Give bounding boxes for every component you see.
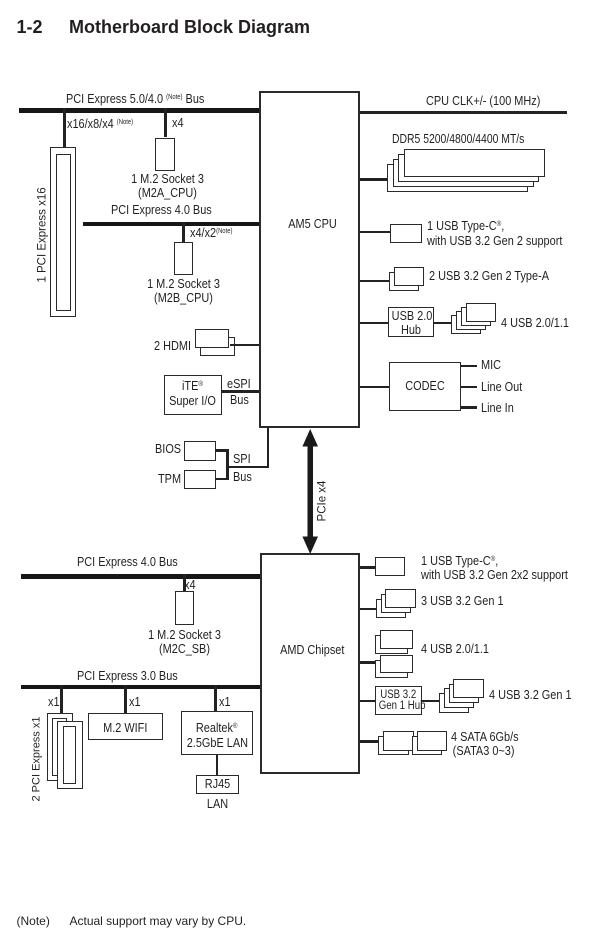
port: USB Type-C box (CPU)	[390, 224, 422, 244]
wire: TPM to SPI joint	[215, 478, 229, 481]
label USB 3.2 Gen 1 Hub	[379, 690, 418, 711]
wire: PCI Express 5.0/4.0 bus line	[19, 108, 259, 113]
connector: PCIe x1 slot back outer	[47, 713, 73, 781]
connector: PCIe x1 slot front inner	[63, 726, 77, 784]
port: USB Type-A front box	[394, 267, 424, 287]
port: USB 3.2 Gen1 stack box 3 (back)	[376, 599, 407, 619]
connector: DDR5 DIMM slot 2	[398, 154, 539, 182]
label AM5 CPU	[270, 217, 355, 230]
port: SATA left back box	[378, 736, 409, 755]
wire: drop to PCIe x1 slots	[60, 685, 63, 713]
port: USB 3.2 Gen1 stack box 1 (front)	[385, 589, 416, 609]
label Line In	[481, 401, 514, 414]
wire: CPU to USB 2.0 hub	[360, 322, 388, 325]
M.2 socket M2B box	[174, 242, 193, 275]
wire: SPI joint vertical	[226, 449, 229, 480]
port: USB 2.0 stack box 4 (back)	[451, 315, 482, 335]
port: USB 2.0 pair1 back box	[375, 635, 408, 654]
label 4 USB 3.2 Gen 1	[489, 688, 572, 701]
label 4 USB 2.0/1.1	[501, 316, 569, 329]
label 3 USB 3.2 Gen 1	[421, 594, 504, 607]
chip: TPM box	[184, 470, 216, 489]
wire: CPU to DDR5	[360, 178, 388, 181]
label 1 USB Type-C with USB 3.2 Gen 2x2 support	[421, 552, 568, 582]
connector: PCI Express x16 slot outer	[50, 147, 76, 317]
wire: hub to 4 USB 3.2 Gen 1 ports	[422, 700, 440, 703]
wire: HDMI to CPU	[230, 344, 259, 347]
label LAN	[199, 797, 235, 810]
label x4	[184, 578, 196, 591]
port: USB 2.0 pair2 back box	[375, 660, 408, 679]
port: USB Type-A back box	[389, 272, 420, 291]
label x16/x8/x4 (Note)	[67, 116, 133, 130]
label x1 (wifi)	[129, 695, 141, 708]
label x4/x2 (Note)	[190, 225, 232, 239]
label SPI	[233, 452, 251, 465]
port: USB 3.2 Gen1 stack box 2	[381, 594, 412, 614]
title section number 1-2	[17, 18, 43, 36]
chip: CODEC box	[389, 362, 461, 411]
wire: chipset to 3 USB 3.2 Gen 1	[360, 608, 377, 611]
wire: CPU to USB Type-C	[360, 231, 390, 234]
label 1 USB Type-C with USB 3.2 Gen 2 support	[427, 217, 562, 247]
label USB 2.0 Hub	[391, 309, 430, 336]
wire: CPU to CODEC	[360, 386, 389, 389]
port: USB 2.0 stack box 1 (front)	[466, 303, 497, 323]
label Line Out	[481, 380, 522, 393]
wire: drop to M2C socket	[183, 574, 186, 591]
chip: Realtek 2.5GbE LAN box	[181, 711, 253, 755]
title Motherboard Block Diagram	[69, 18, 310, 36]
wire: chipset to USB 3.2 Gen 1 hub	[360, 700, 376, 703]
port: USB 2.0 pair1 front box	[380, 630, 413, 649]
label MIC	[481, 358, 501, 371]
label x1 (slots)	[48, 695, 60, 708]
wire: PCI Express 3.0 bus line	[21, 685, 260, 690]
wire: hub to USB2 ports	[434, 322, 451, 325]
bus: PCI Express 3.0 Bus (label)	[77, 669, 178, 682]
wire: SPI bus vertical up to CPU bottom	[267, 427, 270, 468]
wire: BIOS to SPI joint	[215, 449, 229, 452]
wire: Realtek to RJ45	[216, 755, 219, 775]
label 1 M.2 Socket 3 (M2C_SB)	[140, 628, 228, 656]
wire: CPU CLK line	[360, 111, 567, 114]
wire: drop to PCI Express x16 slot	[63, 108, 66, 147]
connector: HDMI front box	[195, 329, 230, 349]
label Realtek 2.5GbE LAN	[187, 719, 247, 750]
port: SATA left front box	[383, 731, 414, 751]
label 4 SATA 6Gb/s (SATA3 0~3)	[451, 730, 519, 758]
wire: PCIe x4 double arrow CPU to chipset	[295, 427, 327, 556]
bus: PCI Express 4.0 Bus bottom (label)	[77, 555, 178, 568]
label M.2 WIFI	[94, 721, 157, 734]
connector: DDR5 DIMM slot 1 (front)	[404, 149, 545, 177]
port: RJ45 box	[196, 775, 239, 794]
label eSPI	[227, 377, 251, 390]
wire: SPI bus horizontal to CPU drop	[226, 466, 269, 469]
connector: HDMI back box	[200, 337, 235, 356]
port: USB 2.0 stack box 3	[456, 311, 487, 331]
note: footnote text	[70, 915, 247, 927]
wire: PCI Express 4.0 bus line (top)	[83, 222, 259, 227]
label RJ45	[199, 777, 235, 790]
label PCIe x4 (rotated)	[316, 481, 329, 522]
wire: CODEC to Line In	[461, 406, 478, 409]
label 1 PCI Express x16 (rotated)	[37, 187, 50, 282]
wire: drop to M2B socket	[182, 222, 185, 242]
M.2 socket M2A box	[155, 138, 175, 171]
label 2 USB 3.2 Gen 2 Type-A	[429, 269, 549, 282]
wire: chipset to SATA	[360, 740, 379, 743]
chip: USB 3.2 Gen 1 Hub box	[375, 686, 422, 716]
label x4	[172, 116, 184, 129]
wire: CPU to USB 3.2 Gen2 Type-A	[360, 280, 389, 283]
label 1 M.2 Socket 3 (M2B_CPU)	[139, 277, 227, 305]
port: SATA right front box	[417, 731, 447, 751]
wire: drop to Realtek LAN	[214, 685, 217, 712]
label AMD Chipset	[270, 643, 354, 656]
wire: drop to M.2 WIFI	[124, 685, 127, 713]
port: USB 3.2 Gen1 hub stack box 3	[444, 688, 475, 708]
connector: DDR5 DIMM slot 4 (back)	[387, 164, 528, 192]
wire: eSPI bus iTE to CPU	[221, 390, 259, 393]
label 2 HDMI	[154, 339, 191, 352]
port: USB 3.2 Gen1 hub stack box 4 (back)	[439, 693, 470, 713]
wire: chipset to 4 USB 2.0/1.1	[360, 661, 375, 664]
port: SATA right back box	[412, 736, 443, 755]
port: USB 2.0 stack box 2	[461, 307, 492, 327]
port: USB 2.0 pair2 front box	[380, 655, 413, 674]
wire: chipset to USB Type-C 2x2	[360, 566, 375, 569]
label TPM	[158, 472, 181, 485]
label 1 M.2 Socket 3 (M2A_CPU)	[123, 172, 211, 200]
CPU block U1: AM5 CPU box	[259, 91, 360, 428]
wire: CODEC to Line Out	[461, 386, 478, 389]
connector: DDR5 DIMM slot 3	[393, 159, 534, 187]
label Bus (SPI)	[233, 470, 252, 483]
label DDR5 5200/4800/4400 MT/s	[392, 132, 524, 145]
label Bus (eSPI)	[230, 393, 249, 406]
note: footnote label	[17, 915, 50, 927]
chipset block: AMD Chipset box	[260, 553, 361, 774]
label 2 PCI Express x1 (rotated)	[31, 717, 44, 802]
label x1 (lan)	[219, 695, 231, 708]
label iTE Super I/O	[169, 377, 217, 407]
label 4 USB 2.0/1.1	[421, 642, 489, 655]
wire: PCI Express 4.0 bus line (bottom)	[21, 574, 260, 579]
M.2 socket M2C box	[175, 591, 195, 625]
wire: CODEC to MIC	[461, 365, 478, 368]
label CPU CLK+/- (100 MHz)	[426, 94, 540, 107]
bus: PCI Express 5.0/4.0 Bus (label)	[66, 91, 204, 105]
chip: iTE Super I/O box	[164, 375, 222, 415]
port: USB 3.2 Gen1 hub stack box 1 (front)	[453, 679, 484, 699]
chip: USB 2.0 Hub box	[388, 307, 434, 337]
chip: BIOS box	[184, 441, 216, 461]
label BIOS	[155, 442, 181, 455]
port: USB 3.2 Gen1 hub stack box 2	[449, 684, 480, 704]
connector: PCI Express x16 slot inner	[56, 154, 71, 311]
port: USB Type-C box (chipset)	[375, 557, 406, 577]
wire: drop to M2A socket	[164, 108, 167, 137]
label CODEC	[394, 379, 454, 392]
bus: PCI Express 4.0 Bus top (label)	[111, 203, 212, 216]
module: M.2 WIFI box	[88, 713, 163, 740]
connector: PCIe x1 slot front outer	[57, 721, 83, 790]
connector: PCIe x1 slot back inner	[52, 718, 67, 776]
